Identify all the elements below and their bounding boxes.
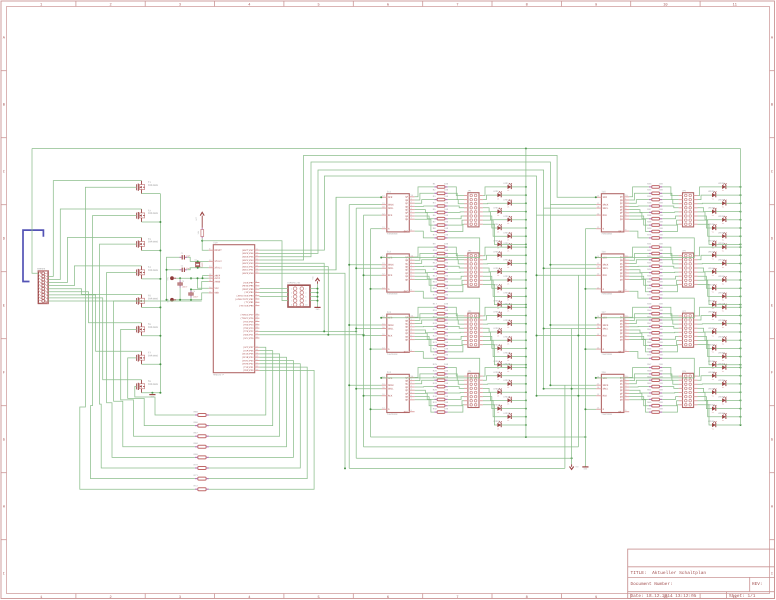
wire IC7 QC to R51 — [629, 320, 649, 324]
resistor R66 — [194, 421, 209, 427]
capacitor C4 — [188, 290, 198, 299]
wire R49 to JP pin — [662, 307, 678, 316]
wire IC3 QE to R21 — [415, 330, 435, 333]
LED LED23 — [503, 352, 512, 362]
resistor R55 — [647, 341, 663, 347]
wire IC2 QC to R11 — [415, 260, 435, 264]
svg-text:100: 100 — [444, 401, 449, 404]
resistor R68 — [194, 442, 209, 448]
svg-text:SER: SER — [603, 317, 608, 320]
LED LED47 — [718, 292, 727, 302]
wire R73 to RESET pin — [202, 238, 208, 250]
capacitor C1 — [180, 252, 191, 260]
junction RCK bus feed — [363, 334, 365, 336]
wire R34 to JP pin — [662, 193, 678, 199]
wire cascade resistor to IC8 SER — [596, 358, 694, 378]
junction C4 column top — [190, 277, 192, 279]
wire EBENE5 to T5 drain — [48, 289, 141, 295]
junction ISP common — [317, 292, 319, 294]
svg-text:JP1: JP1 — [467, 190, 472, 193]
wire LED14 to rail — [501, 287, 526, 289]
wire JP pin to LED30 — [483, 397, 498, 409]
resistor R62 — [647, 395, 663, 401]
junction C2 gnd — [166, 269, 168, 271]
svg-text:R12: R12 — [433, 262, 438, 265]
svg-text:100: 100 — [444, 322, 449, 325]
connector JP8 — [679, 370, 698, 407]
wire right SRCK tap IC8 — [550, 384, 596, 386]
junction LED rail — [740, 399, 742, 401]
svg-text:IRF4905: IRF4905 — [148, 241, 159, 244]
wire IC6 QD to R44 — [629, 265, 649, 267]
svg-text:R62: R62 — [647, 395, 652, 398]
resistor R21 — [433, 328, 449, 334]
svg-text:RCK: RCK — [388, 274, 393, 277]
wire JP pin to LED33 — [698, 187, 723, 196]
svg-text:LED60: LED60 — [708, 387, 715, 390]
svg-text:VL: VL — [507, 419, 509, 422]
svg-text:100: 100 — [659, 401, 664, 404]
wire EBENE6 to T6 drain — [48, 292, 141, 323]
wire R28 to JP pin — [448, 387, 464, 389]
svg-text:D: D — [771, 236, 773, 241]
junction LED rail — [740, 211, 742, 213]
resistor R32 — [433, 408, 449, 414]
resistor R35 — [647, 195, 663, 201]
svg-text:LED2: LED2 — [493, 190, 499, 193]
wire R56 to JP pin — [662, 345, 678, 352]
svg-text:VL: VL — [722, 206, 724, 209]
resistor R36 — [647, 201, 663, 207]
wire PA7 to bottom loop — [259, 273, 345, 468]
wire LED63 to rail — [726, 416, 741, 418]
svg-text:VL: VL — [722, 370, 724, 373]
svg-text:100: 100 — [659, 395, 664, 398]
wire T3 source to rail — [142, 250, 161, 252]
svg-text:R15: R15 — [433, 281, 438, 284]
frame column tick — [352, 1, 354, 7]
svg-text:R35: R35 — [647, 195, 652, 198]
svg-text:VL: VL — [712, 197, 714, 200]
wire IC5 QC to R35 — [629, 200, 649, 204]
junction mid rail bottom — [525, 436, 527, 438]
LED LED57 — [718, 363, 727, 373]
svg-text:R10: R10 — [433, 249, 438, 252]
wire R26 to JP pin — [448, 374, 464, 380]
wire SRCL tap IC2 — [356, 267, 381, 269]
junction LED rail — [525, 364, 527, 366]
svg-text:RCK: RCK — [603, 334, 608, 337]
svg-text:100: 100 — [444, 287, 449, 290]
svg-text:LED53: LED53 — [718, 335, 725, 338]
junction right RCK tap — [536, 335, 538, 337]
svg-text:LED35: LED35 — [718, 198, 725, 201]
wire PA3 to IC5 pin (top nested 1) — [259, 155, 596, 260]
svg-text:100: 100 — [444, 268, 449, 271]
frame column tick — [422, 1, 424, 7]
svg-text:VL: VL — [722, 419, 724, 422]
svg-text:R49: R49 — [647, 303, 652, 306]
junction RCK tap — [363, 274, 365, 276]
wire R40 to JP pin — [662, 224, 678, 231]
junction ISP common — [317, 300, 319, 302]
resistor R49 — [647, 303, 663, 309]
svg-text:10: 10 — [663, 2, 667, 7]
IC IC4 74HC595N — [382, 371, 415, 416]
svg-text:74HC595N: 74HC595N — [601, 353, 612, 356]
wire RESET to ISP — [202, 241, 288, 301]
wire right RCK tap IC8 — [537, 395, 597, 397]
svg-text:SRCL: SRCL — [388, 388, 394, 391]
wire T1 gate to R72 — [80, 187, 195, 489]
wire T5 gate to R68 — [114, 301, 195, 447]
svg-text:R75: R75 — [433, 354, 438, 357]
svg-text:VL: VL — [712, 318, 714, 321]
svg-text:100: 100 — [659, 303, 664, 306]
svg-text:8: 8 — [526, 595, 528, 600]
svg-text:RCK: RCK — [603, 395, 608, 398]
svg-text:IRF4905: IRF4905 — [148, 355, 159, 358]
wire R51 to JP pin — [662, 320, 678, 324]
wire ISP right common — [317, 284, 319, 306]
junction LED rail — [525, 263, 527, 265]
wire IC6 QH* to cascade resistor — [629, 291, 649, 298]
svg-text:14: 14 — [256, 368, 258, 371]
svg-text:QH*: QH* — [618, 290, 623, 293]
svg-text:74HC595N: 74HC595N — [387, 353, 398, 356]
svg-text:28: 28 — [256, 316, 258, 319]
frame row tick — [1, 137, 7, 139]
svg-text:SRCL: SRCL — [603, 388, 609, 391]
wire JP pin to LED20 — [483, 328, 498, 332]
svg-text:VL: VL — [497, 378, 499, 381]
LED LED34 — [708, 190, 717, 200]
transistor T8 — [136, 380, 158, 393]
wire JP pin to LED54 — [698, 336, 713, 348]
svg-text:VL: VL — [497, 334, 499, 337]
junction LED rail — [525, 186, 527, 188]
svg-text:100: 100 — [444, 341, 449, 344]
wire LED49 to rail — [726, 306, 741, 308]
wire cascade resistor to IC2 SER — [382, 238, 480, 258]
wire JP pin to LED1 — [483, 187, 508, 196]
svg-text:35: 35 — [256, 254, 258, 257]
wire LED15 to rail — [511, 295, 526, 297]
wire cascade resistor to IC3 SER — [382, 298, 480, 318]
wire IC7 QG to R55 — [629, 336, 649, 345]
svg-text:RCK: RCK — [388, 214, 393, 217]
wire IC2 QE to R13 — [415, 270, 435, 273]
wire LED18 to rail — [501, 315, 526, 317]
wire IC1 QD to R4 — [415, 205, 435, 207]
svg-text:R73: R73 — [433, 233, 438, 236]
svg-text:100: 100 — [444, 388, 449, 391]
wire JP pin to LED26 — [483, 376, 498, 381]
ground — [582, 465, 588, 471]
wire JP pin to LED31 — [483, 401, 508, 417]
junction source rail — [159, 392, 161, 394]
svg-text:SER: SER — [388, 256, 393, 259]
wire LED40 to rail — [716, 243, 741, 245]
wire IC2 QH to R16 — [415, 279, 435, 291]
svg-text:VL: VL — [712, 395, 714, 398]
LED LED35 — [718, 198, 727, 208]
junction LED rail — [525, 271, 527, 273]
svg-text:100: 100 — [444, 274, 449, 277]
wire IC4 QH to R32 — [415, 400, 435, 412]
svg-text:100: 100 — [659, 201, 664, 204]
resistor R71 — [194, 474, 209, 480]
resistor R44 — [647, 262, 663, 268]
wire R13 to JP pin — [448, 271, 464, 274]
IC IC9 MEGA32-P microcontroller — [209, 241, 260, 376]
wire JP pin to LED35 — [698, 202, 723, 204]
svg-text:100: 100 — [659, 287, 664, 290]
LED LED33 — [718, 182, 727, 192]
wire JP pin to LED12 — [483, 268, 498, 272]
svg-text:R74: R74 — [433, 294, 438, 297]
resistor R4 — [433, 201, 449, 207]
wire T2 gate to R71 — [91, 216, 195, 479]
junction AVCC — [202, 277, 204, 279]
wire right RCK bus vertical — [536, 215, 538, 396]
LED LED62 — [708, 404, 717, 414]
svg-text:RCK: RCK — [603, 274, 608, 277]
svg-text:VL: VL — [722, 326, 724, 329]
wire R39 to JP pin — [662, 220, 678, 225]
svg-text:R60: R60 — [647, 382, 652, 385]
wire JP pin to LED11 — [483, 263, 508, 265]
svg-text:IC4: IC4 — [387, 371, 392, 374]
svg-text:R26: R26 — [433, 369, 438, 372]
connector SV2 ISP 2x5 header — [287, 282, 310, 307]
svg-text:R61: R61 — [647, 388, 652, 391]
wire LED31 to rail — [511, 416, 526, 418]
resistor R1 — [433, 182, 449, 188]
wire JP pin to LED24 — [483, 345, 498, 365]
svg-text:9: 9 — [595, 2, 597, 7]
resistor R48 — [647, 287, 663, 293]
wire RCK into IC1 — [364, 214, 382, 216]
junction gnd line — [166, 299, 168, 301]
svg-text:VL: VL — [507, 189, 509, 192]
resistor R42 — [647, 249, 663, 255]
junction LED rail — [525, 331, 527, 333]
junction right G tap — [584, 288, 586, 290]
LED LED3 — [503, 198, 512, 208]
svg-text:8: 8 — [526, 2, 528, 7]
resistor R47 — [647, 281, 663, 287]
wire R16 to JP pin — [448, 284, 464, 291]
svg-text:100: 100 — [659, 347, 664, 350]
wire ISP pin to common — [310, 296, 318, 298]
svg-text:R37: R37 — [647, 208, 652, 211]
junction G riser / GND — [584, 436, 586, 438]
resistor R60 — [647, 382, 663, 388]
svg-text:2: 2 — [110, 595, 112, 600]
wire R21 to JP pin — [448, 331, 464, 334]
junction RCK riser tap — [577, 335, 579, 337]
crystal Q1 — [195, 258, 204, 268]
junction LED rail — [740, 287, 742, 289]
junction source rail — [159, 278, 161, 280]
LED LED2 — [493, 190, 502, 200]
svg-text:MEGA32-P: MEGA32-P — [213, 374, 224, 377]
resistor R58 — [647, 369, 663, 375]
junction LED rail — [525, 243, 527, 245]
LED LED40 — [708, 240, 717, 250]
junction PA5/PC6 — [327, 334, 329, 336]
resistor R56 — [647, 347, 663, 353]
junction ISP common — [317, 296, 319, 298]
svg-text:JP6: JP6 — [682, 250, 687, 253]
wire R42 to JP pin — [662, 254, 678, 260]
svg-text:2: 2 — [256, 300, 257, 303]
svg-text:H: H — [771, 504, 773, 509]
transistor T1 — [136, 181, 158, 194]
wire JP pin to LED57 — [698, 368, 723, 377]
wire R12 to JP pin — [448, 266, 464, 268]
junction LED rail — [525, 323, 527, 325]
wire cascade resistor to IC6 SER — [596, 238, 694, 258]
svg-text:19: 19 — [256, 351, 258, 354]
LED LED18 — [493, 311, 502, 321]
svg-text:R22: R22 — [433, 335, 438, 338]
wire R48 to JP pin — [662, 284, 678, 291]
junction GND tap — [151, 392, 153, 394]
junction LED rail — [525, 383, 527, 385]
svg-text:QH*: QH* — [404, 230, 409, 233]
wire LED12 to rail — [501, 271, 526, 273]
svg-text:R33: R33 — [647, 182, 652, 185]
svg-text:R31: R31 — [433, 401, 438, 404]
junction SRCL tap — [355, 388, 357, 390]
wire SRCK into IC1 — [349, 204, 381, 206]
LED LED32 — [493, 420, 502, 430]
junction LED rail — [740, 227, 742, 229]
junction LED rail — [525, 227, 527, 229]
wire LED11 to rail — [511, 263, 526, 265]
LED LED6 — [493, 223, 502, 233]
svg-text:RCK: RCK — [388, 334, 393, 337]
wire R52 to JP pin — [662, 326, 678, 328]
supply symbol GND blob — [167, 298, 176, 303]
svg-text:R68: R68 — [194, 442, 199, 445]
svg-text:26: 26 — [256, 322, 258, 325]
svg-text:100: 100 — [659, 208, 664, 211]
svg-text:7: 7 — [291, 299, 292, 302]
svg-text:VL: VL — [497, 411, 499, 414]
svg-text:LED36: LED36 — [708, 207, 715, 210]
wire R58 to JP pin — [662, 374, 678, 380]
svg-text:100: 100 — [659, 281, 664, 284]
wire JP pin to LED58 — [698, 376, 713, 381]
wire LED41 to rail — [726, 246, 741, 248]
wire JP pin to LED34 — [698, 195, 713, 200]
frame row tick — [1, 472, 7, 474]
resistor R73 pullup — [197, 228, 204, 239]
svg-text:LED52: LED52 — [708, 327, 715, 330]
wire G bus vertical — [370, 229, 372, 437]
wire R30 to JP pin — [448, 397, 464, 400]
junction C3 top — [179, 277, 181, 279]
wire LED25 to rail — [511, 367, 526, 369]
svg-text:VL: VL — [497, 395, 499, 398]
wire LED1 to rail — [511, 186, 526, 188]
wire LED43 to rail — [726, 263, 741, 265]
svg-text:R47: R47 — [647, 281, 652, 284]
svg-text:LED27: LED27 — [503, 379, 510, 382]
svg-text:LED10: LED10 — [493, 250, 500, 253]
LED LED45 — [718, 275, 727, 285]
svg-text:VL: VL — [722, 386, 724, 389]
LED LED43 — [718, 259, 727, 269]
svg-text:C: C — [771, 169, 773, 174]
wire MCU PB to ISP row 1 — [259, 288, 288, 290]
junction LED rail — [740, 246, 742, 248]
svg-text:100: 100 — [659, 363, 664, 366]
svg-text:100: 100 — [659, 294, 664, 297]
wire LED47 to rail — [726, 295, 741, 297]
svg-text:16: 16 — [256, 361, 258, 364]
frame row tick — [1, 539, 7, 541]
wire LED59 to rail — [726, 383, 741, 385]
svg-text:LED23: LED23 — [503, 352, 510, 355]
svg-text:VL: VL — [722, 239, 724, 242]
svg-text:R42: R42 — [647, 249, 652, 252]
svg-text:SER: SER — [388, 377, 393, 380]
wire R70 to PD5 — [209, 364, 300, 468]
svg-text:100: 100 — [444, 243, 449, 246]
svg-text:VL: VL — [507, 359, 509, 362]
wire LED28 to rail — [501, 391, 526, 393]
svg-text:100: 100 — [659, 262, 664, 265]
junction LED rail — [525, 304, 527, 306]
wire PA5 jog down — [259, 267, 328, 335]
junction LED rail — [740, 202, 742, 204]
svg-text:R66: R66 — [194, 421, 199, 424]
wire IC4 QD to R28 — [415, 386, 435, 388]
junction LED rail — [740, 235, 742, 237]
wire EBENE8 to T8 drain — [48, 298, 141, 380]
IC IC3 74HC595N — [382, 311, 415, 356]
wire R61 to JP pin — [662, 392, 678, 395]
wire R37 to JP pin — [662, 211, 678, 214]
wire R69 to PD4 — [209, 361, 294, 458]
svg-text:LED28: LED28 — [493, 387, 500, 390]
resistor R7 — [433, 221, 449, 227]
svg-text:R46: R46 — [647, 274, 652, 277]
wire VCC pin — [198, 278, 209, 288]
svg-text:VL: VL — [722, 299, 724, 302]
svg-text:11: 11 — [733, 2, 737, 7]
svg-text:LED11: LED11 — [503, 259, 510, 262]
svg-text:21: 21 — [256, 345, 258, 348]
svg-text:SER: SER — [388, 196, 393, 199]
junction right SRCL tap — [543, 328, 545, 330]
wire IC4 QB to R26 — [415, 374, 435, 381]
svg-text:VL: VL — [712, 230, 714, 233]
svg-text:LED1: LED1 — [503, 182, 509, 185]
wire connector pin1 to H1 — [32, 149, 38, 274]
svg-text:SRCL: SRCL — [603, 267, 609, 270]
svg-text:VL: VL — [507, 249, 509, 252]
LED LED39 — [718, 231, 727, 241]
svg-text:R30: R30 — [433, 395, 438, 398]
svg-text:VL: VL — [712, 351, 714, 354]
wire IC8 QB to R58 — [629, 374, 649, 381]
svg-text:R34: R34 — [647, 189, 652, 192]
